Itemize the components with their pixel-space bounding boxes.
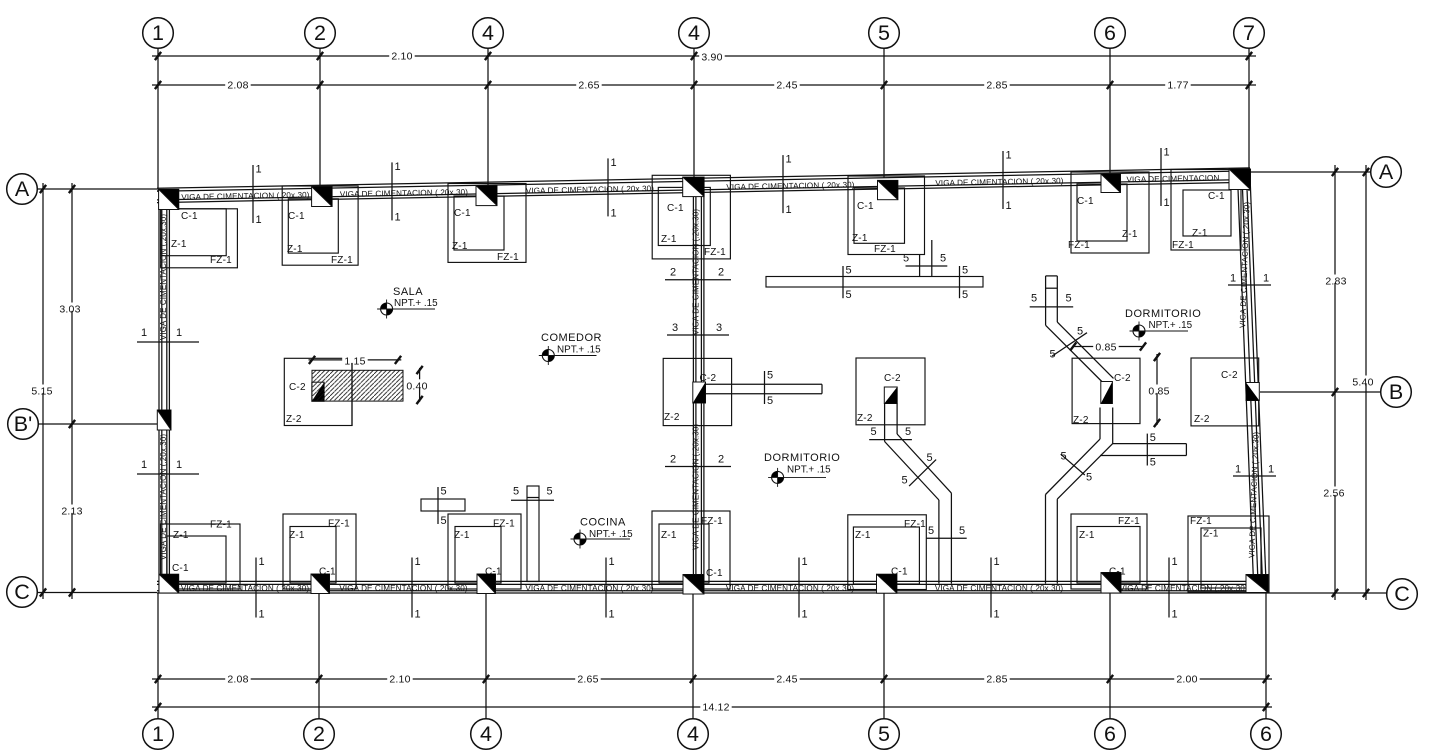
svg-text:5: 5 [940,252,946,264]
svg-text:5: 5 [902,475,908,487]
tie beam stub near grid 4 bottom [421,499,465,511]
tie beam grid6 upper verticals [1046,276,1058,325]
svg-text:3.90: 3.90 [701,52,722,64]
column C-1 grid 4' bottom [683,575,704,595]
svg-text:5: 5 [878,722,890,746]
grid bubble 4 (bottom, x=486) [471,719,502,750]
grid bubble C (right) [1387,579,1418,610]
beam label viga right wall lower [1247,431,1260,558]
beam label viga bottom x=999 [935,584,1063,593]
svg-text:5: 5 [1066,293,1072,305]
svg-text:FZ-1: FZ-1 [1172,240,1194,251]
dim text 2.83 [1323,275,1349,288]
svg-text:5: 5 [927,452,933,464]
svg-text:Z-2: Z-2 [664,412,680,423]
dimension line bottom-1 [152,675,1272,683]
detail dim 1.15 [309,355,402,427]
grid bubble 1 (bottom, x=158) [143,719,174,750]
svg-text:4: 4 [688,21,700,45]
grid line 2 (bottom vertical) [318,594,320,719]
section mark 5-5 tie x=959.5 [960,265,969,302]
grid line 1 (bottom vertical) [157,594,159,719]
tie beam grid5 diagonal [885,434,952,500]
row line B (right) [1260,388,1381,396]
svg-text:1: 1 [994,609,1000,621]
svg-text:4: 4 [482,21,494,45]
column C-1 grid 6 bottom [1101,573,1121,594]
svg-text:7: 7 [1243,21,1255,45]
beam: central band (grid 4') [693,190,704,584]
column C-2 grid 6 mid [1101,382,1113,404]
section mark 5-5 grid5 diagonal [902,452,937,486]
svg-text:C-2: C-2 [1221,370,1238,381]
dim text 2.08 (bottom) [225,673,251,686]
footing Z-1/FZ-1 grid 1 bottom [161,520,241,590]
svg-text:5: 5 [959,525,965,537]
dimension line bottom-2 (14.12 total) [152,703,1272,711]
column C-1 grid 7 top (corner) [1229,169,1251,190]
footing Z-2 grid 5 mid [856,358,925,425]
dim text 5.40 [1350,376,1376,389]
svg-text:5: 5 [1077,326,1083,338]
column C-2 right wall at B [1246,383,1259,401]
grid bubble 4 (top, x=488) [473,18,504,49]
svg-text:B': B' [14,412,32,436]
svg-text:C-1: C-1 [181,211,198,222]
dim text 3.03 [57,303,82,316]
section mark 1-1 bottom beam x=1169 [1169,556,1178,621]
column C-1 grid 6 top [1101,174,1121,193]
footing Z-2 sala detail [284,358,352,425]
column C-2 grid 4' mid [693,382,706,403]
footing Z-1/FZ-1 grid 6 bottom [1071,514,1147,589]
svg-text:1: 1 [415,556,421,568]
svg-text:3: 3 [672,322,678,334]
grid bubble 6 (bottom, x=1266) [1251,719,1282,750]
grid bubble B' (left) [8,409,39,440]
svg-text:C-1: C-1 [172,563,189,574]
svg-text:Z-1: Z-1 [1122,229,1138,240]
svg-text:C-1: C-1 [667,203,684,214]
svg-text:5: 5 [513,486,519,498]
svg-text:2.56: 2.56 [1323,488,1344,500]
section mark 1-1 top beam x=392 [392,161,401,224]
dim text 2.45 (bottom) [774,673,800,686]
grid bubble A (left) [7,174,38,205]
section mark 5-5 grid6 upper [1030,293,1074,307]
grid bubble C (left) [7,577,38,608]
dim text 2.85 (top) [984,79,1010,92]
svg-text:5: 5 [878,21,890,45]
svg-text:Z-1: Z-1 [1203,529,1219,540]
svg-text:NPT.+ .15: NPT.+ .15 [787,465,831,476]
svg-text:FZ-1: FZ-1 [210,255,232,266]
svg-text:2.83: 2.83 [1325,276,1346,288]
section mark 5-5 grid6 horizontal [1147,432,1156,468]
grid bubble 6 (top, x=1110) [1095,18,1126,49]
row line B' (left) [38,420,157,428]
svg-text:2.45: 2.45 [776,674,797,686]
section mark 5-5 stub x=438 [438,486,447,528]
svg-text:2.10: 2.10 [389,674,410,686]
svg-text:Z-1: Z-1 [661,234,677,245]
dim text 2.08 (top) [225,79,251,92]
tie beam upper-right horizontal [766,277,983,288]
svg-text:5: 5 [905,426,911,438]
svg-text:1: 1 [176,327,182,339]
grid line 4 (bottom vertical) [692,594,694,719]
svg-text:1: 1 [1263,273,1269,285]
grid bubble 4 (top, x=694) [679,18,710,49]
svg-text:C-2: C-2 [884,373,901,384]
svg-text:FZ-1: FZ-1 [210,520,232,531]
dim text 2.10 [389,50,415,63]
svg-text:1: 1 [1164,197,1170,209]
svg-text:VIGA DE CIMENTACION: VIGA DE CIMENTACION [1126,174,1219,185]
svg-text:2.08: 2.08 [227,674,248,686]
svg-text:FZ-1: FZ-1 [331,255,353,266]
beam label viga top x=999.5 [935,176,1064,187]
dim line left x=72 (3.03/2.13) [71,183,73,599]
grid line 6 (top vertical) [1109,48,1111,173]
svg-text:1: 1 [786,204,792,216]
beam label viga top x=1173 [1126,174,1219,185]
svg-text:Z-1: Z-1 [661,530,677,541]
tie beam vertical near cocina [527,486,539,582]
footing Z-1/FZ-1 grid 2 bottom [283,514,356,589]
svg-text:FZ-1: FZ-1 [904,519,926,530]
svg-text:1: 1 [802,609,808,621]
svg-text:5: 5 [1050,349,1056,361]
svg-text:1: 1 [611,157,617,169]
grid line 2 (top vertical) [319,48,321,188]
section mark 1-1 top beam x=783 [783,154,792,217]
svg-text:1: 1 [152,21,164,45]
beam: viga de cimentacion bottom band [157,581,1267,593]
room label COMEDOR [539,332,602,365]
svg-text:FZ-1: FZ-1 [1118,516,1140,527]
svg-text:5: 5 [441,515,447,527]
room label COCINA [571,517,634,549]
svg-text:1: 1 [994,556,1000,568]
svg-text:1: 1 [1172,556,1178,568]
svg-text:5: 5 [1150,432,1156,444]
svg-text:1: 1 [256,164,262,176]
beam: viga de cimentacion top band [157,168,1250,203]
svg-text:2.65: 2.65 [578,80,599,92]
svg-text:1: 1 [176,459,182,471]
svg-text:5: 5 [962,289,968,301]
svg-text:VIGA DE CIMENTACION (.20x.30): VIGA DE CIMENTACION (.20x.30) [181,584,309,593]
section mark 5-5 grid6 lower diagonal [1061,450,1093,483]
footing Z-1/FZ-1 grid 4 bottom [448,514,521,589]
svg-text:1.15: 1.15 [344,356,365,368]
svg-text:NPT.+ .15: NPT.+ .15 [589,529,633,540]
column C-1 grid 4 bottom [477,574,496,594]
grid line 5 (top vertical) [883,48,885,177]
beam label viga top x=245.5 [181,191,310,202]
svg-text:B: B [1389,380,1403,404]
svg-text:NPT.+ .15: NPT.+ .15 [394,298,438,309]
svg-text:3: 3 [716,322,722,334]
section mark 1-1 bottom beam x=256 [256,556,265,621]
dim text 1.77 (top) [1165,79,1191,92]
footing Z-2 right wall mid [1191,358,1259,426]
svg-text:NPT.+ .15: NPT.+ .15 [557,345,601,356]
beam: left wall band (grid 1) [159,189,169,593]
column C-1 grid 2 top [312,187,333,207]
section mark 5-5 grid5 lower [926,525,966,538]
column C-1 grid 1 bottom (corner) [159,574,179,593]
row line C (left) [37,588,157,596]
grid line 7 (top vertical) [1248,48,1250,191]
section mark 2-2 central upper [665,267,731,280]
svg-text:1: 1 [1172,609,1178,621]
grid bubble B (right) [1381,377,1412,408]
svg-text:C-1: C-1 [1208,191,1225,202]
svg-text:2.45: 2.45 [776,80,797,92]
svg-text:COCINA: COCINA [580,517,626,529]
section mark 5-5 cocina stub [511,486,554,501]
dim text 2.00 (bottom) [1174,673,1200,686]
svg-text:4: 4 [687,722,699,746]
footing Z-1/FZ-1 grid 5 bottom [848,515,927,590]
svg-text:COMEDOR: COMEDOR [541,332,602,344]
beam label viga bottom x=589.5 [525,584,653,593]
section mark 5-5 mid central [765,370,774,408]
svg-text:C-2: C-2 [289,382,306,393]
beam label viga left wall upper [159,214,168,341]
svg-text:FZ-1: FZ-1 [1190,516,1212,527]
svg-text:1: 1 [256,214,262,226]
svg-text:0.85: 0.85 [1148,386,1169,398]
svg-text:2.65: 2.65 [577,674,598,686]
dim text 2.56 [1321,487,1347,500]
grid line 4 (top vertical) [487,48,489,185]
svg-text:VIGA DE CIMENTACION (.20x.30): VIGA DE CIMENTACION (.20x.30) [726,584,854,593]
svg-text:5: 5 [962,265,968,277]
svg-text:5: 5 [1086,472,1092,484]
dim text 2.13 [59,505,84,518]
svg-text:1: 1 [141,459,147,471]
svg-text:2: 2 [313,722,325,746]
grid bubble A (right) [1371,157,1402,188]
column C-1 grid 5 bottom [877,574,897,593]
column C-1 grid 4' top [683,177,704,197]
svg-text:VIGA DE CIMENTACION (.20x.30): VIGA DE CIMENTACION (.20x.30) [525,584,653,593]
svg-text:C-1: C-1 [288,211,305,222]
beam label viga bottom x=790 [726,584,854,593]
beam label viga top x=790.5 [726,180,855,191]
section mark 1-1 bottom beam x=991 [991,556,1000,621]
tie beam grid6 column verticals [1100,408,1113,444]
svg-text:2: 2 [670,454,676,466]
svg-text:FZ-1: FZ-1 [497,252,519,263]
svg-text:1: 1 [786,154,792,166]
beam label viga bottom x=1183.5 [1119,584,1247,593]
svg-text:VIGA DE CIMENTACION (.20x.30): VIGA DE CIMENTACION (.20x.30) [935,584,1063,593]
svg-text:Z-1: Z-1 [852,233,868,244]
dim text 2.85 (bottom) [984,673,1010,686]
svg-text:VIGA DE CIMENTACION (.20x.30): VIGA DE CIMENTACION (.20x.30) [692,424,701,551]
grid line 4 (bottom vertical) [485,594,487,719]
svg-text:1: 1 [259,556,265,568]
column C-1 grid 1 top (corner) [159,189,179,209]
svg-text:FZ-1: FZ-1 [328,519,350,530]
dim text 2.45 (top) [774,79,800,92]
beam label viga top x=404 [340,188,469,199]
footing Z-1/FZ-1 grid 1 top [161,209,238,268]
grid line 6 (bottom vertical) [1265,594,1267,719]
svg-text:1: 1 [611,207,617,219]
grid bubble 1 (top, x=158) [143,18,174,49]
dim 0.85 horizontal (dormitorio) [1070,341,1146,354]
svg-text:4: 4 [480,722,492,746]
svg-text:2.10: 2.10 [391,51,412,63]
svg-text:2: 2 [314,21,326,45]
section mark 1-1 bottom beam x=412 [412,556,421,621]
dim text 2.65 (top) [576,79,602,92]
svg-text:1: 1 [802,556,808,568]
svg-text:2: 2 [670,267,676,279]
svg-text:FZ-1: FZ-1 [1068,240,1090,251]
dim line right x=1335 [1334,165,1336,600]
dim text 3.90 [699,51,725,64]
svg-text:Z-2: Z-2 [1194,414,1210,425]
grid line 1 (top vertical) [157,48,159,191]
svg-text:2.13: 2.13 [61,506,82,518]
grid bubble 2 (top, x=320) [305,18,336,49]
svg-text:1: 1 [415,609,421,621]
svg-text:1: 1 [259,609,265,621]
svg-text:5: 5 [871,426,877,438]
svg-text:6: 6 [1260,722,1272,746]
svg-text:Z-2: Z-2 [1073,415,1089,426]
section mark 1-1 bottom beam x=606 [606,556,615,621]
beam label viga central upper [692,209,701,336]
svg-text:FZ-1: FZ-1 [874,244,896,255]
footing Z-1/FZ-1 grid 2 top [282,186,358,266]
svg-text:Z-1: Z-1 [287,244,303,255]
section mark 5-5 grid6 upper diagonal [1050,326,1088,361]
svg-text:5: 5 [767,395,773,407]
grid bubble 6 (bottom, x=1110) [1095,719,1126,750]
column C-2 sala detail [312,382,324,401]
svg-text:Z-1: Z-1 [1079,530,1095,541]
room label DORMITORIO (left) [764,452,840,487]
dimension line top-2 [152,81,1256,89]
svg-text:3.03: 3.03 [59,304,80,316]
svg-text:2: 2 [718,454,724,466]
grid line 6 (bottom vertical) [1109,594,1111,719]
svg-text:C-2: C-2 [1114,373,1131,384]
footing Z-1/FZ-1 grid 5 top [848,176,925,255]
beam label viga bottom x=245 [181,584,309,593]
svg-text:5: 5 [547,486,553,498]
grid line 5 (bottom vertical) [883,594,885,719]
svg-text:1: 1 [1006,200,1012,212]
hatched column C-2 detail (1.15x0.40) [312,370,403,401]
svg-text:C-1: C-1 [454,208,471,219]
svg-text:5: 5 [928,525,934,537]
svg-text:1: 1 [1006,150,1012,162]
dim line left x=43 (5.15) [42,183,44,599]
svg-text:5: 5 [767,370,773,382]
svg-text:Z-1: Z-1 [452,241,468,252]
svg-text:1: 1 [609,609,615,621]
dim 0.85 vertical (dormitorio) [1146,353,1172,427]
beam label viga left wall lower [159,434,168,561]
svg-text:Z-2: Z-2 [286,414,302,425]
svg-text:1: 1 [1235,464,1241,476]
grid bubble 4 (bottom, x=693) [678,719,709,750]
svg-text:1.77: 1.77 [1167,80,1188,92]
svg-text:5: 5 [1150,457,1156,469]
footing Z-1/FZ-1 grid 6' bottom [1188,516,1269,592]
beam label viga top x=590 [526,184,655,195]
svg-text:5: 5 [1061,450,1067,462]
svg-text:6: 6 [1104,21,1116,45]
room label SALA [377,286,438,319]
column C-1 left wall at B' [157,410,171,430]
svg-text:2.85: 2.85 [986,674,1007,686]
row line A (left) [37,185,157,193]
svg-text:SALA: SALA [393,286,423,298]
tie beam stub grid5 top [920,240,932,277]
footing Z-1/FZ-1 grid 6 top [1068,172,1149,253]
section mark 5-5 grid5 verticals [869,426,912,440]
room label DORMITORIO (right) [1125,308,1201,341]
column C-1 grid 2 bottom [311,574,330,594]
dim line right x=1366 [1365,165,1367,600]
svg-text:5.40: 5.40 [1352,377,1373,389]
svg-text:C: C [1394,582,1410,606]
svg-text:5: 5 [441,486,447,498]
svg-text:2.85: 2.85 [986,80,1007,92]
dim text 2.10 (bottom) [387,673,413,686]
svg-text:14.12: 14.12 [702,702,729,714]
dimension line top-1 [152,52,1256,60]
beam: right wall band (slanted) [1237,171,1266,592]
tie beam grid5 column verticals [885,404,898,442]
svg-text:Z-1: Z-1 [171,239,187,250]
section mark 1-1 top beam x=253 [253,164,262,227]
svg-text:FZ-1: FZ-1 [701,516,723,527]
footing Z-1/FZ-1 grid 4 top [448,184,526,264]
dim text 5.15 [29,385,55,398]
svg-text:Z-1: Z-1 [173,530,189,541]
beam label viga bottom x=403.5 [339,584,467,593]
svg-text:1: 1 [141,327,147,339]
section mark 1-1 top beam x=608 [608,157,617,220]
svg-text:5.15: 5.15 [31,386,52,398]
svg-text:Z-2: Z-2 [857,413,873,424]
svg-text:DORMITORIO: DORMITORIO [764,452,840,464]
svg-text:Z-1: Z-1 [1192,228,1208,239]
svg-text:NPT.+ .15: NPT.+ .15 [1149,320,1193,331]
beam label viga right wall upper [1238,201,1251,328]
section mark 1-1 right wall lower [1233,464,1276,477]
section mark 1-1 top beam x=1003 [1003,150,1012,213]
svg-text:A: A [15,177,30,201]
svg-text:1: 1 [1230,273,1236,285]
svg-text:FZ-1: FZ-1 [704,247,726,258]
section mark 2-2 central lower [665,454,731,467]
svg-text:1: 1 [609,556,615,568]
svg-text:Z-1: Z-1 [855,530,871,541]
dim text 14.12 [700,701,731,714]
tie beam mid from grid 4' column [706,384,823,393]
